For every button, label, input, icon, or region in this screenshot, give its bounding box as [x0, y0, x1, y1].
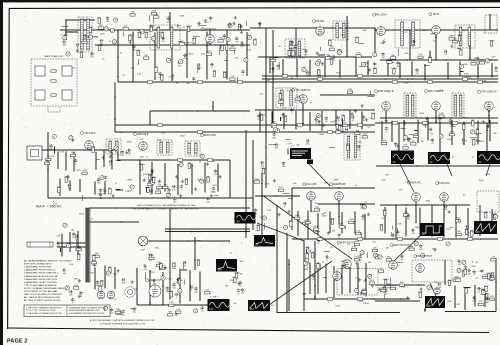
capacitor C20: [241, 70, 244, 74]
svg-text:100V: 100V: [446, 229, 451, 231]
resistor R540: [455, 279, 460, 281]
resistor R23: [230, 78, 235, 80]
resistor R364: [254, 181, 259, 183]
ground: [148, 180, 151, 183]
resistor R520: [384, 280, 386, 285]
wire: [288, 259, 290, 311]
capacitor C130: [235, 37, 238, 41]
wire: [282, 59, 284, 77]
svg-text:1 MEG: 1 MEG: [448, 36, 455, 38]
svg-text:470K: 470K: [464, 73, 469, 75]
capacitor C398: [396, 230, 399, 234]
svg-text:250V: 250V: [491, 57, 496, 59]
capacitor C408: [444, 205, 448, 208]
trimmer: [179, 60, 183, 64]
wire: [409, 30, 411, 60]
svg-text:VERT OUTPUT: VERT OUTPUT: [393, 244, 410, 247]
resistor R489: [312, 253, 314, 258]
svg-text:135V: 135V: [118, 132, 123, 134]
wire: [431, 205, 433, 237]
resistor R121: [150, 26, 152, 31]
stage label: [337, 241, 356, 244]
svg-text:VIDEO AMP: VIDEO AMP: [332, 183, 346, 186]
resistor R495: [352, 248, 357, 250]
wire: [197, 66, 199, 73]
wire: [333, 266, 335, 298]
svg-text:6.8K: 6.8K: [404, 53, 409, 55]
trimmer: [244, 58, 248, 62]
capacitor C343: [104, 176, 107, 180]
wire: [286, 139, 291, 141]
capacitor C63: [90, 52, 93, 56]
trimmer: [355, 288, 359, 292]
tuner tube C: [35, 90, 45, 100]
svg-text:8V: 8V: [256, 243, 259, 246]
resistor R338: [109, 189, 111, 194]
wire: [488, 111, 490, 123]
wire: [292, 238, 498, 240]
wire: [60, 29, 250, 31]
wire: [271, 112, 273, 129]
ground: [450, 123, 453, 126]
wire: [226, 30, 228, 79]
wire: [104, 189, 106, 195]
capacitor C331: [103, 189, 106, 193]
wire: [191, 164, 193, 195]
ground: [287, 210, 290, 213]
capacitor C425: [56, 242, 60, 245]
svg-text:AM IF: AM IF: [433, 13, 440, 16]
svg-text:120K: 120K: [100, 33, 105, 35]
svg-text:2.2K: 2.2K: [328, 40, 333, 42]
IF transformer T2: [150, 25, 180, 50]
ground: [378, 288, 381, 291]
trimmer: [446, 242, 450, 246]
wire: [469, 30, 471, 60]
trimmer: [63, 36, 67, 40]
wire: [314, 247, 316, 254]
ground: [450, 45, 453, 48]
capacitor C38: [197, 63, 201, 66]
capacitor C356: [206, 197, 209, 201]
resistor R522: [380, 289, 385, 291]
resistor R554: [168, 314, 173, 316]
wire: [319, 263, 321, 269]
wire: [425, 122, 427, 127]
ground: [164, 266, 167, 269]
svg-text:1 MEG: 1 MEG: [340, 261, 347, 263]
svg-text:1 MEG: 1 MEG: [187, 53, 194, 55]
trimmer: [262, 216, 266, 220]
ground: [448, 210, 451, 213]
trimmer: [66, 244, 70, 248]
trimmer: [368, 274, 372, 278]
wire: [89, 221, 139, 223]
ground: [365, 118, 368, 121]
tube V14 hor control: [440, 193, 449, 202]
svg-text:2.2K: 2.2K: [383, 210, 388, 212]
wire: [261, 173, 263, 236]
wire: [118, 81, 498, 83]
resistor R352: [185, 179, 187, 184]
trimmer: [423, 122, 427, 126]
svg-text:330K: 330K: [340, 35, 345, 37]
trimmer: [110, 29, 114, 33]
resistor R504: [379, 270, 384, 272]
wire: [309, 263, 311, 294]
wire: [390, 278, 392, 285]
capacitor C83: [467, 269, 471, 272]
wire: [318, 203, 375, 205]
bus resistor: [317, 78, 322, 80]
wire: [94, 182, 96, 195]
wire: [65, 151, 67, 170]
svg-text:2.2K: 2.2K: [137, 32, 142, 34]
wire: [237, 77, 239, 82]
svg-text:100K: 100K: [382, 140, 387, 142]
svg-text:100K: 100K: [92, 255, 97, 257]
svg-text:330K: 330K: [401, 286, 406, 288]
wire: [151, 162, 153, 193]
wire: [384, 207, 386, 234]
wire: [380, 204, 470, 206]
wire: [463, 287, 470, 289]
wire: [424, 65, 430, 67]
wire: [398, 123, 400, 151]
hor osc transformer T10: [477, 191, 499, 212]
resistor R490: [354, 243, 359, 245]
capacitor C531: [486, 297, 489, 301]
resistor R100: [306, 248, 308, 253]
resistor R13: [82, 41, 87, 43]
capacitor C481: [312, 274, 315, 278]
svg-text:680K: 680K: [196, 240, 201, 242]
stage label: [375, 90, 395, 93]
svg-text:100K: 100K: [224, 44, 229, 46]
ground: [158, 180, 161, 183]
resistor R232: [355, 132, 360, 134]
trimmer: [66, 52, 70, 56]
capacitor C219: [306, 139, 310, 142]
svg-text:470K: 470K: [391, 285, 396, 287]
wire: [297, 211, 299, 236]
scope waveform W5: [420, 223, 444, 236]
bus resistor: [357, 124, 362, 126]
svg-text:45V: 45V: [218, 268, 223, 271]
wire: [310, 201, 312, 212]
ground: [99, 43, 102, 46]
wire: [137, 304, 209, 306]
tube V4 AM IF: [432, 26, 441, 35]
capacitor C447: [143, 264, 147, 267]
wire: [325, 264, 327, 293]
resistor R466: [178, 279, 180, 284]
resistor R90: [372, 249, 377, 251]
capacitor C200: [306, 71, 310, 74]
svg-text:3.3K: 3.3K: [355, 277, 360, 279]
scope waveform W3: [477, 151, 500, 164]
bus resistor: [422, 122, 427, 124]
svg-text:250V: 250V: [324, 183, 329, 185]
scope waveform W11: [425, 296, 445, 308]
wire: [302, 104, 304, 125]
wire: [424, 64, 426, 81]
capacitor C548: [110, 308, 113, 312]
wire: [354, 212, 356, 234]
trimmer: [151, 180, 155, 184]
trimmer: [65, 286, 69, 290]
svg-text:2.2K: 2.2K: [362, 289, 367, 291]
IF transformer T1: [78, 17, 92, 52]
trimmer: [414, 241, 418, 245]
wire: [417, 119, 419, 142]
wire: [451, 120, 453, 145]
svg-text:470K: 470K: [369, 280, 374, 282]
resistor R303: [92, 147, 94, 152]
stage label: [312, 20, 325, 23]
resistor R335: [65, 177, 67, 182]
capacitor C50: [240, 41, 244, 44]
capacitor C212: [257, 114, 260, 118]
ground: [45, 161, 48, 164]
capacitor C186: [494, 66, 498, 69]
svg-text:1 MEG: 1 MEG: [145, 187, 152, 189]
resistor R518: [399, 284, 404, 286]
tuner notch: [48, 106, 60, 112]
wire: [356, 136, 358, 140]
wire: [459, 61, 461, 76]
wire: [116, 160, 121, 162]
svg-text:4TH VIDEO IF: 4TH VIDEO IF: [481, 91, 497, 94]
trimmer: [140, 30, 144, 34]
tuner tube A: [35, 66, 45, 76]
wire: [486, 164, 490, 176]
trimmer: [373, 253, 377, 257]
resistor R444: [93, 256, 95, 261]
capacitor C285: [74, 159, 77, 163]
wire: [319, 47, 321, 51]
resistor R88: [386, 259, 391, 261]
svg-text:100K: 100K: [278, 93, 283, 95]
capacitor C386: [361, 215, 365, 218]
svg-text:NOTE: VOLTAGES SHOWN ARE TA: NOTE: VOLTAGES SHOWN ARE TAKEN: [24, 287, 65, 290]
capacitor C350: [173, 197, 176, 201]
svg-text:1 MEG: 1 MEG: [138, 164, 145, 166]
trimmer: [494, 215, 498, 219]
ground: [232, 22, 235, 25]
trimmer: [302, 67, 306, 71]
resistor R120: [161, 33, 163, 38]
ground: [210, 194, 213, 197]
wire: [177, 164, 179, 195]
svg-text:250V: 250V: [294, 44, 299, 46]
ground: [371, 284, 374, 287]
wire: [324, 58, 326, 77]
capacitor C48: [223, 34, 226, 38]
trimmer: [226, 38, 230, 42]
svg-text:2.2K: 2.2K: [116, 309, 121, 311]
wire: [259, 111, 261, 131]
capacitor C288: [49, 144, 52, 148]
wire: [424, 308, 426, 312]
stage label: [200, 134, 216, 137]
svg-text:470K: 470K: [466, 77, 471, 79]
wire: [224, 60, 228, 62]
capacitor C454: [122, 278, 126, 281]
wire: [89, 207, 250, 209]
svg-text:7 NO SOUND BARS IN RASTE: 7 NO SOUND BARS IN RASTER: [24, 284, 57, 287]
wire: [399, 63, 401, 78]
capacitor C426: [75, 234, 79, 237]
resistor R496: [354, 259, 359, 261]
resistor R361: [147, 187, 149, 192]
svg-text:2.2K: 2.2K: [230, 76, 235, 78]
resistor R30: [207, 53, 212, 55]
wire: [114, 82, 116, 132]
resistor R289: [46, 158, 51, 160]
resistor R95: [419, 292, 421, 297]
svg-text:100K: 100K: [330, 218, 335, 220]
svg-text:1 MEASURED WITH VTVM: 1 MEASURED WITH VTVM: [24, 266, 51, 269]
svg-text:3.3K: 3.3K: [486, 174, 491, 176]
wire: [439, 123, 441, 152]
svg-text:4.7K: 4.7K: [60, 152, 65, 154]
resistor R279: [476, 130, 478, 135]
wire: [357, 264, 359, 295]
wire: [367, 252, 369, 258]
bus resistor: [147, 81, 152, 83]
capacitor C535: [477, 287, 481, 290]
wire: [268, 143, 275, 145]
svg-text:ALL CAPS IN MFD UNLESS NO: ALL CAPS IN MFD UNLESS NOTED: [24, 296, 61, 299]
svg-text:250V: 250V: [420, 233, 425, 235]
scope waveform W10: [248, 300, 270, 311]
resistor R39: [161, 75, 163, 80]
capacitor C450: [152, 279, 156, 282]
resistor R241: [336, 131, 341, 133]
capacitor C459: [190, 285, 194, 288]
wire: [380, 59, 498, 61]
hor output transformer T11: [412, 260, 452, 282]
tube V8 4th video IF: [485, 102, 494, 111]
ground: [129, 40, 132, 43]
resistor R369: [257, 226, 259, 231]
wire: [358, 42, 364, 44]
bus resistor: [427, 81, 432, 83]
svg-text:3.3K: 3.3K: [137, 74, 142, 76]
trimmer: [130, 185, 134, 189]
svg-text:330K: 330K: [479, 180, 484, 182]
wire: [130, 307, 136, 309]
svg-text:2.2K: 2.2K: [136, 50, 141, 52]
photo top edge bar: [0, 0, 500, 2]
wire: [321, 111, 323, 131]
resistor R445: [101, 281, 103, 286]
ground: [76, 49, 79, 52]
capacitor C512: [419, 245, 422, 249]
resistor R190: [490, 41, 492, 46]
capacitor C344: [66, 175, 70, 178]
wire: [115, 131, 375, 133]
svg-text:100K: 100K: [295, 215, 300, 217]
resistor R227: [341, 126, 343, 131]
wire: [323, 277, 327, 279]
ground: [219, 175, 222, 178]
FM det transformer T5b: [285, 39, 305, 58]
svg-text:250V: 250V: [488, 59, 493, 61]
resistor R516: [383, 287, 385, 292]
svg-text:470K: 470K: [220, 45, 225, 47]
svg-text:250V: 250V: [180, 135, 185, 137]
svg-text:2.2K: 2.2K: [169, 302, 174, 304]
ground: [420, 287, 423, 290]
resistor R453: [149, 257, 154, 259]
wire: [444, 260, 446, 285]
bus resistor: [177, 159, 182, 161]
wire: [81, 195, 83, 201]
svg-text:100K: 100K: [371, 113, 376, 115]
wire: [255, 109, 375, 111]
svg-text:3.3K: 3.3K: [50, 156, 55, 158]
resistor R208: [284, 116, 286, 121]
capacitor C24: [183, 54, 187, 57]
wire: [317, 213, 319, 235]
AM loop antenna: [27, 242, 53, 247]
resistor R233: [362, 136, 367, 138]
resistor R501: [362, 291, 367, 293]
tube V10 1st FM IF: [139, 142, 148, 151]
wire: [136, 268, 138, 305]
capacitor C391: [337, 233, 340, 237]
trimmer: [283, 225, 287, 229]
svg-text:330K: 330K: [336, 72, 341, 74]
svg-text:4.7K: 4.7K: [53, 203, 58, 205]
wire: [114, 267, 116, 289]
wire: [263, 223, 265, 230]
scope waveform W4: [235, 212, 256, 224]
svg-text:3.3K: 3.3K: [292, 183, 297, 185]
svg-text:VARY PLUS OR MINUS 10 PER: VARY PLUS OR MINUS 10 PERCENT: [24, 293, 62, 296]
trimmer: [276, 129, 280, 133]
resistor R126: [218, 40, 223, 42]
trimmer: [307, 249, 311, 253]
svg-text:6 MEASURED ON AC POSITION: 6 MEASURED ON AC POSITION: [24, 281, 57, 284]
resistor R184: [458, 36, 460, 41]
resistor R346: [156, 191, 161, 193]
capacitor C52: [167, 17, 170, 21]
ground: [341, 130, 344, 133]
trimmer: [114, 18, 118, 22]
svg-text:MAIN TUNER UNIT: MAIN TUNER UNIT: [44, 55, 64, 58]
wire: [250, 27, 375, 29]
wire: [169, 272, 171, 300]
ground: [237, 282, 240, 285]
wire: [443, 202, 445, 215]
trimmer: [316, 114, 320, 118]
ground: [194, 187, 197, 190]
capacitor C329: [97, 178, 100, 182]
svg-text:TO 45.75 MC, SOUND 41.25 MC: TO 45.75 MC, SOUND 41.25 MC: [26, 310, 56, 312]
wire: [95, 152, 97, 170]
resistor R114: [129, 35, 131, 40]
ground: [278, 213, 281, 216]
resistor R422: [76, 248, 81, 250]
wire: [96, 159, 100, 161]
resistor R293: [71, 154, 76, 156]
resistor R384: [356, 232, 361, 234]
capacitor C336: [68, 184, 72, 187]
bus resistor: [357, 75, 362, 77]
